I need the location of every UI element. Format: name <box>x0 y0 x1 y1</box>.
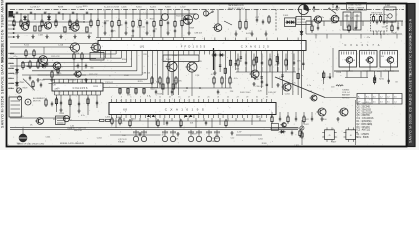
motor M4 <box>19 134 27 142</box>
wire <box>55 94 101 96</box>
pin bottom U2 p3 <box>120 115 122 119</box>
wire <box>104 26 106 32</box>
jack box J5 <box>322 127 337 141</box>
wire <box>305 21 307 34</box>
wire <box>146 26 148 32</box>
diode D32 <box>15 81 18 87</box>
svg-text:J5: J5 <box>328 135 330 137</box>
wire <box>293 54 295 61</box>
transistor Q6 <box>330 15 339 23</box>
svg-text:C X A 1 0 5 S: C X A 1 0 5 S <box>73 87 88 90</box>
wire <box>155 118 157 125</box>
pin 18 of U1 <box>188 51 190 55</box>
wire <box>396 34 398 39</box>
diode D50 <box>280 130 286 133</box>
can hatch T1 <box>341 52 343 55</box>
wire <box>211 118 213 128</box>
ground G14 <box>124 31 127 35</box>
pin 20 of U1 <box>198 51 200 55</box>
resistor R151 <box>37 60 39 69</box>
wire <box>236 71 296 73</box>
wire <box>380 34 382 39</box>
capacitor Ct5 <box>86 11 88 13</box>
capacitor C311 <box>317 26 319 31</box>
svg-text:CD RADIO CASSETTE: CD RADIO CASSETTE <box>409 72 413 112</box>
ground G20 <box>250 32 253 36</box>
wire <box>174 9 176 19</box>
resistor R157 <box>32 80 34 88</box>
bottom rail 2 <box>10 129 298 131</box>
wire <box>13 14 15 20</box>
section diagonal <box>275 77 325 98</box>
wire <box>269 54 271 61</box>
svg-text:VOL : 50KB: VOL : 50KB <box>357 137 370 139</box>
relay box RL1 <box>343 12 351 30</box>
svg-text:Q2 : 2SC945: Q2 : 2SC945 <box>357 107 371 109</box>
pin top U2 p25 <box>227 99 229 103</box>
connector ticks <box>8 52 14 54</box>
pin bottom U2 p33 <box>266 115 268 119</box>
pin top U2 p9 <box>149 99 151 103</box>
capacitor C145 <box>132 29 134 34</box>
head hatch 165 <box>162 131 164 133</box>
pin top U2 p2 <box>115 99 117 103</box>
divider <box>355 100 357 145</box>
wire <box>235 31 237 35</box>
resistor Rs3 <box>143 88 145 95</box>
wire <box>277 54 279 61</box>
resistor R155 <box>73 52 75 61</box>
pin top U3 p2 <box>58 80 60 84</box>
transistor Q1 <box>20 23 29 31</box>
wire <box>125 26 127 32</box>
ground G62 <box>230 131 233 135</box>
can hatch T2 <box>361 52 363 55</box>
wire <box>217 9 219 24</box>
capacitor C440 <box>291 131 293 136</box>
head hatch 209 <box>206 131 208 133</box>
svg-text:4.7u: 4.7u <box>275 65 279 67</box>
transistor Q4 <box>213 24 222 32</box>
wire <box>259 118 261 121</box>
svg-text:0.022: 0.022 <box>304 124 310 126</box>
svg-text:4.7u: 4.7u <box>81 115 85 117</box>
note box <box>347 3 367 11</box>
capacitor C420 <box>166 121 168 126</box>
wire <box>188 9 190 19</box>
resistor R123 <box>118 19 120 28</box>
pin top U2 p26 <box>232 99 234 103</box>
svg-text:P-601: P-601 <box>283 15 289 17</box>
wire <box>22 74 60 76</box>
wire <box>132 34 134 38</box>
resistor R426 <box>100 119 105 121</box>
transistor Q18 <box>339 108 349 116</box>
resistor R210 <box>323 71 325 80</box>
capacitor C153 <box>85 64 87 69</box>
svg-text:Q4 : 2SA1015F: Q4 : 2SA1015F <box>357 111 373 114</box>
wire <box>245 54 247 61</box>
pin mark top U1 p22 <box>214 38 216 41</box>
resistor R150 <box>29 60 31 69</box>
wire <box>147 118 149 128</box>
svg-text:1u: 1u <box>198 113 200 115</box>
wire <box>159 83 161 88</box>
pin 34 of U1 wire <box>271 51 273 89</box>
pin top U2 p4 <box>125 99 127 103</box>
wire <box>163 118 165 125</box>
capacitor Ct4 <box>72 11 74 13</box>
supply arrow A1 <box>313 6 316 12</box>
pin top U2 p17 <box>188 99 190 103</box>
pin 25 of U1 wire <box>224 51 226 89</box>
pin bottom U2 p24 <box>222 115 224 119</box>
pin top U2 p20 <box>203 99 205 103</box>
svg-text:X-201: X-201 <box>150 7 157 9</box>
resistor R164 <box>213 76 215 85</box>
pin top U2 p16 <box>183 99 185 103</box>
svg-text:5: 5 <box>130 97 131 99</box>
resistor R156 <box>81 52 83 61</box>
connector J2 box <box>9 97 22 117</box>
diode D42 <box>219 53 225 56</box>
pin 12 of U1 route <box>157 51 159 88</box>
wire <box>326 34 328 39</box>
wire <box>43 47 45 54</box>
wire <box>41 14 43 20</box>
ground G34 <box>77 109 80 113</box>
svg-text:C88 103: C88 103 <box>194 32 202 34</box>
wire <box>191 72 193 96</box>
pin bottom U2 p14 <box>174 115 176 119</box>
wire <box>376 31 378 35</box>
pin top U3 p4 <box>67 80 69 84</box>
capacitor C421 <box>205 121 207 126</box>
pin bottom U2 p11 <box>159 115 161 119</box>
wire <box>346 71 348 78</box>
diode D33 <box>41 64 47 67</box>
svg-text:MOTOR: MOTOR <box>74 130 82 132</box>
capacitor C181 <box>245 61 247 66</box>
wire <box>342 70 353 72</box>
svg-text:Q3 : 2SA1015: Q3 : 2SA1015 <box>357 108 372 111</box>
ground G32 <box>84 78 87 82</box>
head coil pair 191 <box>188 130 201 142</box>
wire <box>104 9 106 19</box>
transistor Q5 <box>313 16 322 23</box>
wire <box>153 34 155 38</box>
pin mark top U1 p14 <box>172 38 174 41</box>
capacitor Cp39 <box>302 62 304 64</box>
pin 19 of U1 <box>193 51 195 55</box>
diode D21 <box>184 17 190 20</box>
pin top U2 p33 <box>266 99 268 103</box>
rec diode pair 2 <box>185 114 193 117</box>
capacitor C187 <box>293 61 295 66</box>
resistor R152 <box>51 70 53 79</box>
wire <box>22 128 24 134</box>
wire <box>111 9 113 19</box>
wire <box>243 118 245 121</box>
pin top U3 p5 <box>72 80 74 84</box>
resistor R102 <box>20 19 22 28</box>
can T3 <box>380 51 398 68</box>
transistor Q14 <box>365 57 373 63</box>
pin top U3 p11 <box>100 80 102 84</box>
svg-text:R77 56K: R77 56K <box>174 80 182 82</box>
wire <box>171 118 173 121</box>
svg-text:47u: 47u <box>54 89 57 91</box>
pin 30 of U1 wire <box>250 51 252 79</box>
pin 38 of U1 wire <box>292 51 294 96</box>
pin bottom U2 p8 <box>144 115 146 119</box>
transistor Q17 <box>317 108 327 116</box>
svg-text:T-301: T-301 <box>166 59 172 61</box>
svg-text:BAR ANT: BAR ANT <box>342 94 351 97</box>
pin top U2 p28 <box>241 99 243 103</box>
transistor Q4a <box>193 14 198 19</box>
svg-text:CXA017A: CXA017A <box>345 44 384 47</box>
head coil pair 136 <box>133 130 146 142</box>
resistor R160 <box>151 76 153 85</box>
VR1 label box <box>296 17 311 25</box>
wire <box>12 21 92 23</box>
capacitor C133 <box>188 21 190 26</box>
resistor Rs2 <box>135 88 137 95</box>
wire <box>279 112 281 117</box>
pin bottom U2 p2 <box>115 115 117 119</box>
pin top U2 p1 <box>111 99 113 103</box>
resistor Rs1 <box>127 88 129 95</box>
wire <box>295 112 297 117</box>
pin bottom U3 p11 <box>100 91 102 95</box>
svg-text:M: M <box>27 100 29 104</box>
wire <box>195 118 197 128</box>
svg-text:3: 3 <box>121 97 122 99</box>
supply arrow A3 <box>254 74 257 80</box>
pin bottom U3 p8 <box>86 91 88 95</box>
svg-text:D1 : 1N60P(E): D1 : 1N60P(E) <box>357 121 372 123</box>
svg-text:C34 0.01: C34 0.01 <box>137 26 146 28</box>
wire <box>251 31 253 35</box>
wire <box>235 118 237 121</box>
wire <box>237 54 239 61</box>
ground G60 <box>138 132 141 136</box>
svg-text:R-318: R-318 <box>165 7 171 9</box>
pin top U2 p21 <box>208 99 210 103</box>
pin 24 of U1 wire <box>219 51 221 73</box>
svg-text:3.3: 3.3 <box>380 102 383 104</box>
capacitor C301 <box>376 20 378 25</box>
capacitor C230 <box>256 18 258 23</box>
pin top U2 p14 <box>174 99 176 103</box>
motor M3 <box>63 116 69 122</box>
pin top U2 p30 <box>251 99 253 103</box>
pin top U2 p32 <box>261 99 263 103</box>
svg-text:HEAD: HEAD <box>212 140 218 143</box>
svg-text:4.7u: 4.7u <box>292 83 296 85</box>
svg-text:CXA1019S: CXA1019S <box>165 108 208 112</box>
pin 14 of U1 wire <box>167 51 169 96</box>
resistor R401 <box>45 98 47 107</box>
motor M1 <box>25 99 31 105</box>
svg-text:MODEL 14CD-494HX43: MODEL 14CD-494HX43 <box>60 143 85 145</box>
diode D31 <box>15 68 18 74</box>
pin bottom U3 p9 <box>90 91 92 95</box>
wire <box>374 71 376 84</box>
pin top U2 p18 <box>193 99 195 103</box>
resistor R425 <box>119 117 121 125</box>
capacitor C152 <box>77 64 79 69</box>
wire <box>332 48 334 78</box>
can T1 <box>339 51 357 68</box>
resistor R211 <box>373 76 375 85</box>
junction dots bus <box>20 13 21 14</box>
pin 15 of U1 wire <box>172 51 174 96</box>
svg-text:2.2K: 2.2K <box>52 85 57 87</box>
pin top U2 p22 <box>212 99 214 103</box>
pin bottom U3 p4 <box>67 91 69 95</box>
svg-text:C88 103: C88 103 <box>68 80 76 82</box>
resistor R182 <box>253 58 255 67</box>
right margin strip <box>408 4 416 147</box>
wire <box>139 9 141 19</box>
transistor Q8 <box>90 43 100 52</box>
pin bottom U2 p27 <box>237 115 239 119</box>
wire <box>315 34 317 39</box>
pin bottom U2 p5 <box>130 115 132 119</box>
transistor Q7 <box>69 43 80 52</box>
resistor R423 <box>225 119 227 128</box>
wire <box>287 112 289 117</box>
wire <box>27 14 29 20</box>
wire <box>153 9 155 19</box>
capacitor C154 <box>40 83 42 88</box>
pin top U3 p10 <box>95 80 97 84</box>
svg-text:13: 13 <box>169 97 171 99</box>
can hatch T3 <box>382 52 384 55</box>
resistor R134 <box>153 20 155 29</box>
motor VR1 <box>299 4 309 14</box>
pin top U2 p29 <box>246 99 248 103</box>
capacitor C151 <box>29 76 31 81</box>
pin 5 of U1 route <box>120 51 122 59</box>
svg-text:2.2K: 2.2K <box>308 91 313 93</box>
pin top U2 p10 <box>154 99 156 103</box>
capacitor C185 <box>277 61 279 66</box>
svg-text:0.6: 0.6 <box>394 96 397 98</box>
pin top U2 p7 <box>140 99 142 103</box>
resistor R180 <box>237 58 239 67</box>
capacitor C302 <box>78 102 80 107</box>
cluster X2 <box>64 27 66 32</box>
wire <box>16 59 18 93</box>
svg-text:IC1 : CXA1019S: IC1 : CXA1019S <box>357 117 374 120</box>
wire <box>317 21 319 26</box>
pin 23 of U1 wire <box>214 51 216 73</box>
ground Gp22 <box>213 71 216 75</box>
resistor R184 <box>269 58 271 67</box>
svg-text:2.2K: 2.2K <box>237 132 242 134</box>
capacitor C210 <box>388 79 390 84</box>
wire <box>10 65 55 67</box>
svg-text:19: 19 <box>198 97 200 99</box>
resistor R427 <box>106 119 111 121</box>
wire <box>221 83 223 88</box>
transistor Q8a <box>52 62 61 70</box>
resistor R420 <box>129 119 131 128</box>
wire <box>340 21 342 26</box>
resistor Rp34 <box>276 57 278 62</box>
wire <box>311 112 313 117</box>
transistor Q14b <box>310 95 318 101</box>
dual diode DA1 <box>183 15 192 24</box>
transistor Q10 <box>186 62 198 72</box>
pin top U2 p6 <box>135 99 137 103</box>
svg-text:47u: 47u <box>20 116 23 118</box>
pin top U2 p3 <box>120 99 122 103</box>
pin 1 of U1 wire <box>100 51 102 59</box>
shield bar <box>213 48 215 70</box>
wire <box>383 31 385 35</box>
capacitor C130 <box>167 21 169 26</box>
svg-text:27: 27 <box>237 97 239 99</box>
schematic sheet <box>7 4 407 147</box>
svg-text:SCHEMATIC DIAGRAM: SCHEMATIC DIAGRAM <box>409 35 413 76</box>
inductor L3 <box>336 85 343 86</box>
capacitor C127 <box>146 21 148 26</box>
pin bottom U2 p32 <box>261 115 263 119</box>
pin bottom U3 p6 <box>77 91 79 95</box>
IC U2 body <box>109 103 276 115</box>
resistor R128 <box>111 20 113 29</box>
ground G1 <box>16 35 19 39</box>
svg-text:C-614 47: C-614 47 <box>268 92 277 94</box>
svg-text:C-815: C-815 <box>294 145 299 147</box>
pulley P1 <box>18 96 22 100</box>
capacitor C148 <box>153 29 155 34</box>
wire arrow <box>224 21 232 25</box>
ground G3 <box>45 35 48 39</box>
svg-text:LV1: LV1 <box>140 45 145 49</box>
pin bottom U2 p18 <box>193 115 195 119</box>
wire <box>251 118 253 125</box>
wire <box>227 118 229 121</box>
wire <box>373 31 375 35</box>
wire <box>167 83 169 88</box>
wire <box>369 63 371 71</box>
capacitor C231 <box>262 20 264 25</box>
resistor R166 <box>229 76 231 85</box>
svg-text:0.022: 0.022 <box>246 33 252 35</box>
capacitor Ct1 <box>30 11 32 13</box>
transistor Q7b <box>73 71 81 77</box>
wire <box>69 14 71 20</box>
pin mark top U1 p20 <box>204 38 206 41</box>
wire <box>261 54 263 61</box>
pin mark top U1 p28 <box>245 38 247 41</box>
svg-text:HEAD POSITION: HEAD POSITION <box>70 126 87 129</box>
pin mark top U1 p8 <box>141 38 143 41</box>
svg-text:C 6 5: C 6 5 <box>160 135 165 137</box>
pin top U3 p7 <box>81 80 83 84</box>
svg-text:31: 31 <box>256 97 258 99</box>
pin top U2 p19 <box>198 99 200 103</box>
transistor Q12 <box>282 83 292 91</box>
svg-text:47u: 47u <box>164 61 167 63</box>
capacitor C160 <box>155 90 157 95</box>
pin mark top U1 p6 <box>131 38 133 41</box>
